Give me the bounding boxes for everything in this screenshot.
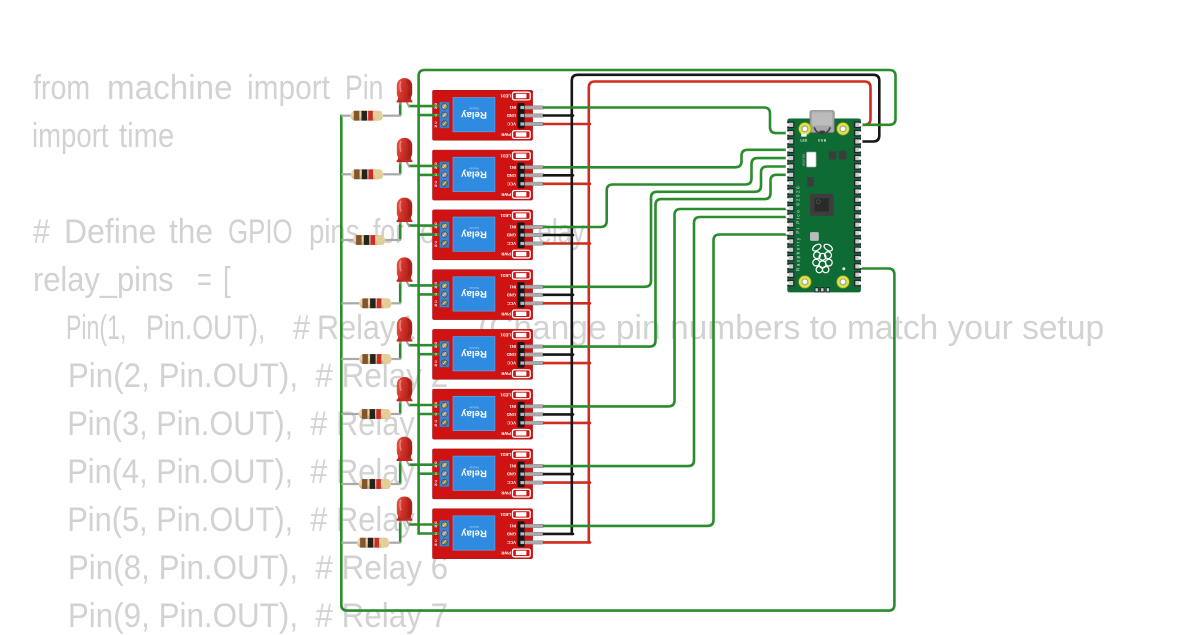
svg-text:USB: USB [818,139,827,143]
wire: LED2 cathode down to resistor R2 [399,162,402,173]
relay module R6 screw terminal [434,401,449,427]
relay module R4 screw terminal [434,281,449,307]
wire: relay R3 COM screw branch [419,233,447,236]
wire: relay R8 IN1 to Pico GPIO [544,235,792,526]
svg-text:LED: LED [800,139,807,143]
wire: LED4 anode to relay R4 NO screw [410,284,447,287]
wire: relay R2 IN1 to Pico GPIO [544,150,792,168]
wire: LED7 cathode down to resistor R7 [399,461,402,483]
wire: LED8 anode to relay R8 NO screw [410,523,447,526]
wire: LED2 anode to relay R2 NO screw [410,165,447,168]
relay module R4 board (rotated 180) [433,270,545,320]
resistor R2 1k leads [341,173,351,175]
relay module R8 screw terminal [434,520,449,546]
resistor R1 1k leads [341,115,350,117]
resistor R7 1k body [359,479,391,489]
wire: LED6 cathode down to resistor R6 [399,401,402,413]
wire: relay R2 GND branch [544,174,573,177]
wire: relay R7 IN1 to Pico GPIO [544,217,792,466]
relay module R5 board (rotated 180) [433,329,545,379]
wire: relay R2 COM screw branch [419,174,447,177]
LED5 red 5mm [397,317,413,347]
resistor R5 1k body [359,354,391,364]
resistor R6 1k body [359,409,391,419]
Raspberry Pi Pico U1 [786,111,863,293]
wire: LED7 anode to relay R7 NO screw [410,463,447,466]
wire: LED3 anode to relay R3 NO screw [410,224,447,227]
wire: relay R4 GND branch [544,293,573,296]
LED6 red 5mm [397,377,413,407]
wire: relay R3 IN1 to Pico GPIO [544,158,792,227]
resistor R1 1k body [351,111,383,121]
RP2040 chip [810,194,834,216]
test point [842,267,845,270]
relay module R7 screw terminal [434,461,449,487]
resistor R6 1k leads [341,413,359,415]
background Python code [33,69,90,107]
wire: relay R5 IN1 to Pico GPIO [544,175,792,347]
resistor R5 1k leads [341,358,359,360]
LED4 red 5mm [397,257,413,287]
wire: LED5 cathode down to resistor R5 [399,341,402,358]
resistor R3 1k leads [341,239,353,241]
wire: relay R7 COM screw branch [419,472,447,475]
wire: relay R8 GND branch [544,533,573,536]
wire: relay R3 VCC branch [544,242,590,245]
resistor R4 1k body [359,298,391,308]
relay module R5 screw terminal [434,341,449,367]
wire: relay R4 COM screw branch [419,293,447,296]
mounting holes [799,123,812,136]
resistor R7 1k leads [341,483,359,485]
svg-text:BOOTSEL: BOOTSEL [803,153,806,166]
wire: relay R1 GND branch [544,114,573,117]
resistor R3 1k body [353,235,385,245]
LED2 red 5mm [397,138,413,168]
wire: relay R6 VCC branch [544,422,590,425]
debug pads [815,287,819,292]
wire: LED1 anode to relay R1 NO screw [410,105,447,108]
pin pads [786,122,795,129]
relay module R8 board (rotated 180) [433,509,545,559]
wire: LED1 cathode down to resistor R1 [399,102,402,114]
relay module R3 board (rotated 180) [433,210,545,260]
wire: black GND bus + top run to Pico GND [572,75,880,534]
relay module R2 screw terminal [434,162,449,188]
wire: LED8 cathode down to resistor R8 [399,521,402,542]
relay module R7 board (rotated 180) [433,449,545,499]
BOOTSEL button [807,152,816,167]
wire: relay R8 COM screw branch [419,532,447,535]
USB connector [810,111,834,133]
wire: relay R7 GND branch [544,473,573,476]
relay module R1 screw terminal [434,102,449,128]
raspberry logo [811,243,833,273]
wire: relay R7 VCC branch [544,481,590,484]
LED3 red 5mm [397,198,413,228]
wire: relay R5 GND branch [544,353,573,356]
wire: green COM supply bus + top run to Pico VBUS [419,70,896,534]
wire: green return bus (left column, bottom run, up to Pico) [341,116,894,611]
wire: red VCC bus + top run to Pico VBUS [589,82,871,543]
wire: relay R8 VCC branch [544,541,590,544]
wire: relay R5 VCC branch [544,362,590,365]
resistor R8 1k leads [341,542,357,544]
wire: relay R4 VCC branch [544,302,590,305]
onboard LED [801,134,806,137]
LED7 red 5mm [397,437,413,467]
wire: LED5 anode to relay R5 NO screw [410,344,447,347]
LED1 red 5mm [397,78,413,108]
resistor R4 1k leads [341,302,359,304]
wire: relay R5 COM screw branch [419,353,447,356]
resistor R2 1k body [351,169,383,179]
wire: relay R1 IN1 to Pico GPIO [544,108,792,134]
wire: LED6 anode to relay R6 NO screw [410,404,447,407]
svg-text:Raspberry Pi Pico ©2020: Raspberry Pi Pico ©2020 [796,185,801,271]
wire: LED4 cathode down to resistor R4 [399,282,402,303]
wire: relay R1 VCC branch [544,123,590,126]
wire: relay R4 IN1 to Pico GPIO [544,167,792,287]
flash chip [807,177,814,186]
wire: relay R3 GND branch [544,234,573,237]
crystal [810,232,819,241]
wire: relay R2 VCC branch [544,183,590,186]
LED8 red 5mm [397,496,413,526]
resistor R8 1k body [357,538,389,548]
small ICs [829,151,837,159]
relay module R3 screw terminal [434,221,449,247]
USB contacts [814,127,819,133]
relay module R6 board (rotated 180) [433,389,545,439]
wire: relay R1 COM screw branch [419,114,447,117]
wire: LED3 cathode down to resistor R3 [399,222,402,239]
wire: relay R6 IN1 to Pico GPIO [544,209,792,406]
wire: relay R6 COM screw branch [419,413,447,416]
relay module R1 board (rotated 180) [433,90,545,140]
wire: relay R6 GND branch [544,413,573,416]
relay module R2 board (rotated 180) [433,150,545,200]
